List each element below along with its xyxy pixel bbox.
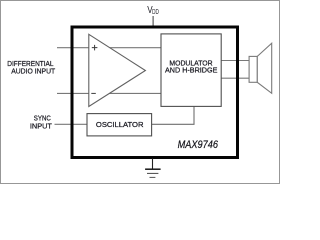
wire IN+ from differential input to modulator [57,47,161,49]
speaker [249,43,272,93]
ground [145,159,161,178]
wire OUT- modulator to speaker [221,77,249,79]
label SYNC INPUT [30,113,52,130]
svg-text:MAX9746: MAX9746 [178,139,218,151]
wire OUT+ modulator to speaker [221,60,249,62]
op-amp - input marker [91,92,96,94]
net VDD label [147,5,159,16]
op-amp U1 [89,34,146,106]
IC boundary box [72,27,238,158]
op-amp + input marker [92,45,98,51]
wire oscillator output to modulator [152,106,194,124]
wire IN- from differential input to modulator [57,92,161,94]
label DIFFERENTIAL AUDIO INPUT [7,59,55,76]
svg-text:DD: DD [152,9,159,16]
modulator and h-bridge block [161,34,221,107]
wire VDD stem [152,16,154,26]
wire SYNC input to oscillator [55,123,88,125]
svg-text:AUDIO INPUT: AUDIO INPUT [11,66,55,75]
svg-text:INPUT: INPUT [30,122,52,131]
svg-text:AND H-BRIDGE: AND H-BRIDGE [165,66,217,75]
svg-text:OSCILLATOR: OSCILLATOR [96,120,144,129]
oscillator block [87,114,152,136]
